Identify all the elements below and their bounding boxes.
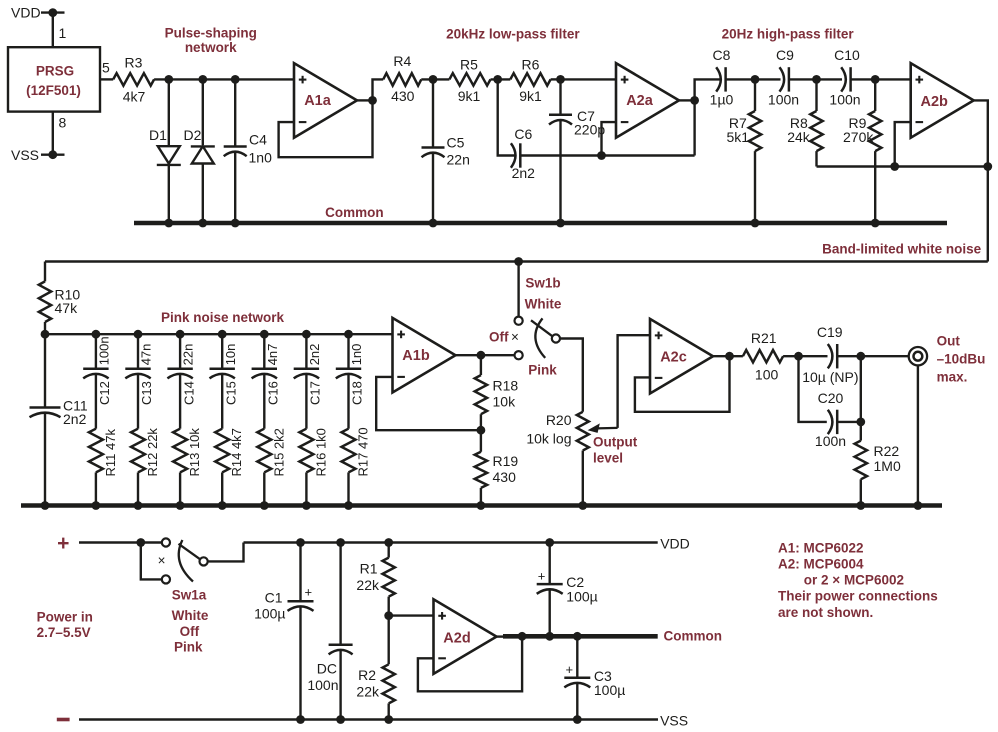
svg-text:Common: Common <box>664 629 723 644</box>
node <box>914 501 923 510</box>
svg-text:C4: C4 <box>249 132 267 148</box>
capacitor C18 <box>336 334 365 405</box>
node <box>477 501 486 510</box>
node VDD (supply terminal) <box>11 5 65 21</box>
svg-text:R4: R4 <box>393 53 411 69</box>
node <box>92 501 101 510</box>
label Band-limited white noise <box>822 242 982 257</box>
svg-text:A1b: A1b <box>402 348 430 364</box>
svg-text:100n: 100n <box>97 336 112 365</box>
pin 5 <box>102 60 110 76</box>
capacitor C15 <box>210 334 239 405</box>
wire <box>497 635 506 637</box>
svg-text:100µ: 100µ <box>566 589 597 605</box>
node <box>384 611 393 620</box>
svg-text:C8: C8 <box>713 47 731 63</box>
node <box>218 501 227 510</box>
svg-text:R17 470: R17 470 <box>356 427 371 476</box>
svg-text:Off: Off <box>489 330 509 345</box>
svg-text:100n: 100n <box>829 92 860 108</box>
svg-text:max.: max. <box>937 370 968 385</box>
svg-text:100µ: 100µ <box>254 606 285 622</box>
svg-text:C12: C12 <box>97 381 112 405</box>
wire <box>713 355 743 357</box>
wire <box>755 78 781 80</box>
node <box>856 501 865 510</box>
resistor R14 <box>215 374 244 505</box>
svg-text:22n: 22n <box>447 152 470 168</box>
svg-text:VSS: VSS <box>660 713 688 729</box>
svg-text:A2c: A2c <box>660 350 687 366</box>
node <box>134 501 143 510</box>
rail Common (bottom) <box>503 634 658 639</box>
svg-text:A2d: A2d <box>443 630 470 646</box>
resistor R13 <box>173 374 202 505</box>
svg-text:1: 1 <box>59 25 67 41</box>
svg-text:10k: 10k <box>493 394 517 410</box>
switch Sw1a <box>141 538 208 583</box>
wire <box>851 78 875 80</box>
label Common <box>325 205 384 220</box>
node <box>231 75 240 84</box>
svg-text:4k7: 4k7 <box>123 89 146 105</box>
node <box>384 715 393 724</box>
svg-text:PRSG: PRSG <box>36 64 74 79</box>
diode D2 <box>184 79 215 223</box>
op-amp A1b <box>393 318 456 393</box>
node <box>302 330 311 339</box>
svg-text:100µ: 100µ <box>594 682 625 698</box>
capacitor C7 <box>549 79 605 223</box>
node <box>556 75 565 84</box>
svg-text:–10dBu: –10dBu <box>937 352 986 367</box>
svg-text:VDD: VDD <box>660 536 690 552</box>
node <box>545 632 554 641</box>
capacitor C16 <box>252 334 281 405</box>
node <box>164 219 173 228</box>
svg-text:R16 1k0: R16 1k0 <box>313 428 328 476</box>
node <box>198 219 207 228</box>
wire <box>456 354 515 356</box>
resistor R1 <box>356 543 394 616</box>
node <box>983 162 992 171</box>
svg-text:Band-limited white noise: Band-limited white noise <box>822 242 982 257</box>
svg-text:White: White <box>172 608 209 623</box>
node <box>545 538 554 547</box>
wire <box>491 78 511 80</box>
wire <box>551 78 616 80</box>
svg-text:1n0: 1n0 <box>249 150 273 166</box>
wire <box>373 79 384 100</box>
svg-text:Pink noise network: Pink noise network <box>161 310 285 325</box>
svg-text:Pulse-shaping: Pulse-shaping <box>165 26 257 41</box>
svg-text:100: 100 <box>755 367 779 383</box>
svg-text:22n: 22n <box>181 344 196 366</box>
node <box>597 151 606 160</box>
node <box>41 330 50 339</box>
svg-text:Pink: Pink <box>528 363 557 378</box>
svg-text:1M0: 1M0 <box>874 458 901 474</box>
label Pulse-shaping network <box>165 26 257 56</box>
wire <box>618 335 650 428</box>
label - (power terminal) <box>57 718 70 722</box>
node <box>231 219 240 228</box>
svg-text:are not shown.: are not shown. <box>778 605 873 620</box>
svg-text:2n2: 2n2 <box>307 344 322 366</box>
svg-text:or 2 × MCP6002: or 2 × MCP6002 <box>804 572 904 587</box>
capacitor DC 100n <box>307 543 352 720</box>
node <box>336 538 345 547</box>
PRSG IC (12F501) <box>8 47 100 111</box>
connector Out <box>909 347 927 365</box>
node <box>751 219 760 228</box>
svg-text:2n2: 2n2 <box>512 165 536 181</box>
svg-text:1µ0: 1µ0 <box>710 92 734 108</box>
wire <box>154 78 294 80</box>
pin 1 <box>59 25 67 41</box>
note A1/A2 types <box>778 540 938 620</box>
resistor R15 <box>257 374 286 505</box>
svg-text:(12F501): (12F501) <box>26 83 81 98</box>
svg-text:Out: Out <box>937 334 961 349</box>
svg-text:4n7: 4n7 <box>265 344 280 366</box>
resistor R4 <box>383 53 421 104</box>
svg-text:5: 5 <box>102 60 110 76</box>
svg-text:Power in: Power in <box>37 610 93 625</box>
label Off <box>180 624 200 639</box>
svg-text:C16: C16 <box>266 381 281 405</box>
wire <box>560 339 583 412</box>
wire <box>208 543 244 562</box>
capacitor C4 <box>224 79 272 223</box>
node <box>218 330 227 339</box>
node <box>856 352 865 361</box>
wire <box>917 365 919 506</box>
svg-text:47n: 47n <box>139 344 154 366</box>
svg-text:100n: 100n <box>768 92 799 108</box>
svg-text:R19: R19 <box>493 453 519 469</box>
svg-text:R21: R21 <box>751 330 777 346</box>
wire <box>837 355 909 357</box>
svg-text:×: × <box>511 330 519 345</box>
svg-text:VDD: VDD <box>11 5 41 21</box>
node <box>344 501 353 510</box>
node <box>198 75 207 84</box>
svg-text:9k1: 9k1 <box>458 88 481 104</box>
label White <box>172 608 209 623</box>
capacitor C14 <box>167 334 196 405</box>
svg-text:5k1: 5k1 <box>727 129 750 145</box>
node <box>134 330 143 339</box>
wire <box>875 78 911 80</box>
resistor R17 <box>342 374 371 505</box>
svg-text:R3: R3 <box>125 55 143 71</box>
resistor R11 <box>89 374 118 505</box>
svg-text:24k: 24k <box>787 129 811 145</box>
svg-text:C1: C1 <box>265 590 283 606</box>
svg-text:2.7–5.5V: 2.7–5.5V <box>37 625 91 640</box>
label Common <box>664 629 723 644</box>
node <box>477 351 486 360</box>
label Sw1a <box>172 588 207 603</box>
label White <box>525 297 562 312</box>
svg-text:+: + <box>57 532 69 555</box>
label VDD <box>660 536 690 552</box>
wire <box>789 78 816 80</box>
svg-text:100n: 100n <box>307 677 338 693</box>
svg-text:×: × <box>158 553 166 568</box>
node <box>429 219 438 228</box>
capacitor C9 <box>768 47 799 108</box>
wire <box>357 99 373 101</box>
label Out -10dBu max. <box>937 334 986 385</box>
node <box>296 715 305 724</box>
svg-text:R13 10k: R13 10k <box>187 428 202 477</box>
label Off <box>489 330 519 345</box>
wire (A2c feedback) <box>635 356 730 412</box>
wire <box>100 78 113 80</box>
resistor R12 <box>131 374 160 505</box>
capacitor C5 <box>422 79 470 223</box>
label Power in 2.7-5.5V <box>37 610 93 641</box>
svg-text:VSS: VSS <box>11 147 39 163</box>
wire <box>521 154 695 156</box>
node <box>368 96 377 105</box>
wire (A2b feedback line) <box>817 165 988 167</box>
svg-text:A1: MCP6022: A1: MCP6022 <box>778 540 864 555</box>
svg-text:1n0: 1n0 <box>349 344 364 366</box>
node <box>578 501 587 510</box>
svg-text:network: network <box>185 40 237 55</box>
node VSS (supply terminal) <box>11 147 65 163</box>
node Sw1b input <box>514 257 523 266</box>
svg-text:R22: R22 <box>874 443 900 459</box>
svg-text:+: + <box>538 569 546 584</box>
svg-text:22k: 22k <box>356 577 380 593</box>
label Output level <box>593 435 638 466</box>
svg-text:Pink: Pink <box>174 640 203 655</box>
svg-text:2n2: 2n2 <box>63 411 87 427</box>
svg-text:C6: C6 <box>514 126 532 142</box>
ground rail Common (top) <box>134 221 947 226</box>
node <box>477 426 486 435</box>
node <box>176 501 185 510</box>
node <box>690 96 699 105</box>
node <box>556 219 565 228</box>
label Pink <box>528 363 557 378</box>
capacitor C12 <box>83 334 112 405</box>
svg-text:Common: Common <box>325 205 384 220</box>
svg-text:10k log: 10k log <box>526 431 571 447</box>
svg-text:C18: C18 <box>350 381 365 405</box>
svg-text:C17: C17 <box>308 381 323 405</box>
wire <box>79 541 162 543</box>
node <box>176 330 185 339</box>
svg-text:C9: C9 <box>776 47 794 63</box>
svg-text:level: level <box>593 451 623 466</box>
capacitor C3 <box>564 636 625 719</box>
svg-text:22k: 22k <box>356 684 380 700</box>
node <box>871 75 880 84</box>
svg-text:R12 22k: R12 22k <box>145 428 160 477</box>
resistor R19 <box>475 430 519 505</box>
op-amp A2c <box>650 319 713 394</box>
wire (A1b feedback) <box>376 377 481 430</box>
wire (A2b inverting input) <box>895 122 911 166</box>
wire <box>389 614 434 616</box>
svg-text:C14: C14 <box>181 381 196 405</box>
capacitor C6 <box>498 79 535 181</box>
label + (power terminal) <box>57 532 69 555</box>
resistor R9 <box>843 79 881 223</box>
svg-text:430: 430 <box>391 88 415 104</box>
wire <box>421 78 449 80</box>
wire <box>52 112 54 155</box>
node <box>856 418 865 427</box>
label VSS <box>660 713 688 729</box>
svg-text:8: 8 <box>59 115 67 131</box>
wire <box>679 99 695 101</box>
svg-text:9k1: 9k1 <box>519 88 542 104</box>
svg-text:R15 2k2: R15 2k2 <box>271 428 286 476</box>
svg-text:47k: 47k <box>55 300 79 316</box>
node <box>518 632 527 641</box>
capacitor C11 <box>30 334 88 505</box>
wire <box>817 78 843 80</box>
resistor R7 <box>727 79 762 223</box>
svg-text:430: 430 <box>493 469 517 485</box>
label Pink noise network <box>161 310 285 325</box>
svg-text:10n: 10n <box>223 344 238 366</box>
svg-text:R5: R5 <box>460 57 478 73</box>
resistor R18 <box>475 355 519 430</box>
resistor R10 <box>39 262 81 335</box>
svg-text:Off: Off <box>180 624 200 639</box>
wire <box>860 356 862 440</box>
svg-text:R20: R20 <box>546 412 572 428</box>
svg-text:+: + <box>566 662 574 677</box>
node <box>794 352 803 361</box>
node <box>302 501 311 510</box>
svg-text:R11 47k: R11 47k <box>103 429 118 477</box>
potentiometer R20 <box>526 412 617 506</box>
wire (A2d feedback) <box>418 636 522 691</box>
wire (pink ladder bus) <box>45 333 393 335</box>
resistor R22 <box>855 441 901 506</box>
capacitor C1 <box>254 543 313 720</box>
svg-text:D2: D2 <box>184 127 202 143</box>
wire <box>726 78 755 80</box>
node <box>751 75 760 84</box>
svg-text:+: + <box>305 585 313 600</box>
wire (VDD rail) <box>244 541 658 543</box>
svg-text:10µ (NP): 10µ (NP) <box>802 369 858 385</box>
node <box>429 75 438 84</box>
svg-text:Sw1b: Sw1b <box>525 276 560 291</box>
resistor R3 <box>113 55 154 105</box>
svg-text:C15: C15 <box>223 381 238 405</box>
diode D1 <box>149 79 181 223</box>
node <box>493 75 502 84</box>
wire (white noise bus) <box>45 260 988 262</box>
capacitor C8 <box>710 47 734 108</box>
svg-text:20kHz low-pass filter: 20kHz low-pass filter <box>446 27 580 42</box>
svg-text:A1a: A1a <box>304 93 332 109</box>
svg-text:100n: 100n <box>815 433 846 449</box>
svg-text:R18: R18 <box>493 378 519 394</box>
label Sw1b <box>525 276 560 291</box>
svg-text:C5: C5 <box>447 135 465 151</box>
node <box>136 538 145 547</box>
op-amp A2a <box>616 63 679 138</box>
svg-text:C13: C13 <box>139 381 154 405</box>
svg-text:270k: 270k <box>843 129 874 145</box>
resistor R8 <box>787 79 822 166</box>
capacitor C20 <box>799 356 861 449</box>
resistor R21 <box>743 330 783 383</box>
node <box>92 330 101 339</box>
node <box>871 219 880 228</box>
svg-text:A2: MCP6004: A2: MCP6004 <box>778 556 864 571</box>
capacitor C2 <box>537 543 598 637</box>
svg-text:A2a: A2a <box>626 93 654 109</box>
resistor R5 <box>449 57 490 105</box>
svg-text:White: White <box>525 297 562 312</box>
label Pink <box>174 640 203 655</box>
wire <box>693 100 695 155</box>
op-amp A2d <box>434 599 497 674</box>
node <box>725 352 734 361</box>
label 20Hz high-pass filter <box>722 27 855 42</box>
svg-text:20Hz high-pass filter: 20Hz high-pass filter <box>722 27 855 42</box>
svg-text:D1: D1 <box>149 127 167 143</box>
resistor R6 <box>510 57 550 105</box>
svg-text:C10: C10 <box>834 47 860 63</box>
node <box>296 538 305 547</box>
svg-text:Sw1a: Sw1a <box>172 588 207 603</box>
node <box>41 501 50 510</box>
svg-text:R14 4k7: R14 4k7 <box>229 428 244 476</box>
svg-text:DC: DC <box>317 661 337 677</box>
node <box>890 162 899 171</box>
ground rail Common (middle) <box>21 503 942 508</box>
svg-text:A2b: A2b <box>920 94 948 110</box>
svg-text:C19: C19 <box>817 324 843 340</box>
svg-text:R2: R2 <box>358 667 376 683</box>
op-amp A2b <box>911 63 974 138</box>
wire (band-limited white noise) <box>974 100 988 261</box>
node <box>812 75 821 84</box>
label 20kHz low-pass filter <box>446 27 580 42</box>
node <box>260 501 269 510</box>
svg-text:R1: R1 <box>360 561 378 577</box>
node <box>336 715 345 724</box>
wire <box>695 79 720 100</box>
wire <box>783 355 827 357</box>
wire <box>52 13 54 48</box>
wire (A1a feedback) <box>279 100 373 157</box>
node <box>573 632 582 641</box>
node <box>260 330 269 339</box>
svg-text:R6: R6 <box>522 57 540 73</box>
pin 8 <box>59 115 67 131</box>
capacitor C13 <box>125 334 154 405</box>
svg-text:Output: Output <box>593 435 638 450</box>
resistor R16 <box>299 374 328 505</box>
capacitor C10 <box>829 47 860 108</box>
node <box>384 538 393 547</box>
resistor R2 <box>356 616 394 720</box>
